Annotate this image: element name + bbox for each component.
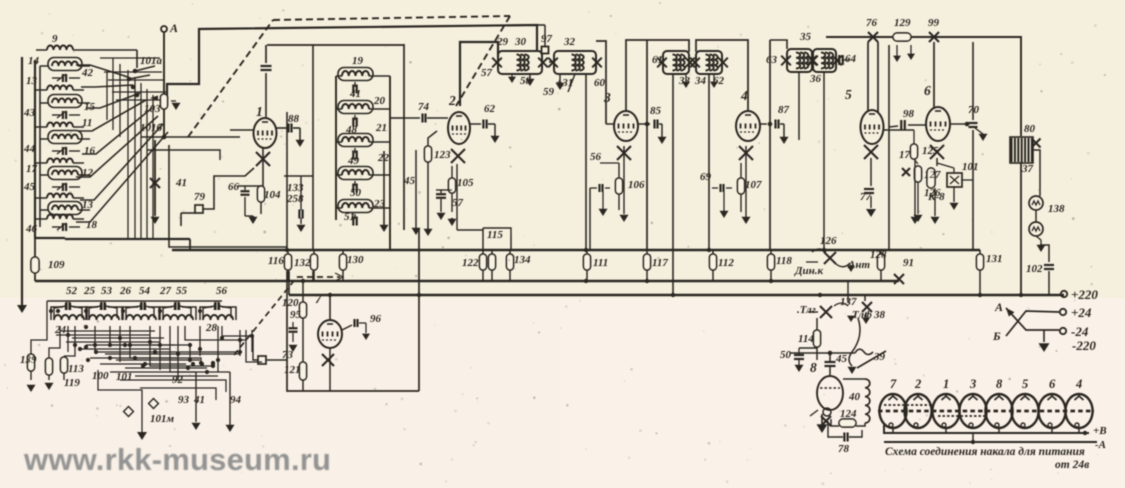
- svg-text:от 24в: от 24в: [1055, 459, 1089, 471]
- svg-text:122: 122: [462, 257, 479, 269]
- svg-text:A: A: [169, 21, 178, 35]
- svg-text:109: 109: [48, 259, 65, 271]
- svg-text:29: 29: [496, 36, 509, 48]
- svg-text:Ант: Ант: [847, 259, 870, 271]
- svg-text:92: 92: [172, 374, 184, 386]
- svg-text:20: 20: [373, 95, 386, 107]
- svg-text:121: 121: [284, 364, 301, 376]
- svg-text:93: 93: [178, 394, 190, 406]
- svg-text:Схема соединения накала для пи: Схема соединения накала для питания: [885, 446, 1085, 458]
- svg-text:-А: -А: [1095, 439, 1106, 451]
- svg-text:128: 128: [870, 249, 887, 261]
- svg-text:63: 63: [766, 54, 778, 66]
- svg-text:51: 51: [344, 211, 355, 223]
- svg-text:117: 117: [652, 257, 668, 269]
- svg-text:64: 64: [845, 53, 857, 65]
- svg-text:104: 104: [264, 189, 281, 201]
- svg-text:5: 5: [1022, 377, 1028, 391]
- svg-text:17: 17: [899, 149, 911, 161]
- svg-text:Дин.к: Дин.к: [794, 265, 823, 277]
- svg-text:9: 9: [52, 33, 58, 45]
- svg-text:12: 12: [82, 167, 94, 179]
- svg-text:57: 57: [481, 67, 493, 79]
- svg-text:87: 87: [778, 104, 790, 116]
- svg-text:28: 28: [205, 322, 218, 334]
- svg-text:85: 85: [650, 105, 662, 117]
- svg-text:100: 100: [92, 370, 109, 382]
- svg-text:60: 60: [594, 77, 606, 89]
- svg-text:106: 106: [628, 179, 645, 191]
- svg-text:+31: +31: [556, 77, 573, 89]
- svg-text:73: 73: [282, 349, 294, 361]
- svg-text:78: 78: [838, 443, 850, 455]
- svg-text:113: 113: [68, 363, 84, 375]
- svg-text:139: 139: [20, 354, 37, 366]
- svg-text:3: 3: [969, 377, 976, 391]
- svg-text:66: 66: [228, 181, 240, 193]
- svg-text:4: 4: [740, 88, 748, 103]
- svg-text:76: 76: [866, 17, 878, 29]
- svg-text:62: 62: [713, 75, 725, 87]
- svg-text:42: 42: [81, 67, 94, 79]
- svg-text:56: 56: [590, 151, 602, 163]
- svg-text:32: 32: [563, 36, 576, 48]
- svg-text:45: 45: [835, 353, 848, 365]
- svg-text:103: 103: [144, 103, 161, 115]
- svg-text:41: 41: [349, 88, 361, 100]
- svg-text:101a: 101a: [140, 55, 163, 67]
- svg-text:21: 21: [375, 122, 387, 134]
- svg-text:13: 13: [82, 199, 94, 211]
- svg-text:8: 8: [996, 377, 1003, 391]
- svg-text:50: 50: [780, 349, 792, 361]
- svg-text:52: 52: [66, 285, 78, 297]
- svg-text:+220: +220: [1071, 287, 1098, 302]
- svg-text:11: 11: [82, 117, 92, 129]
- svg-text:8: 8: [810, 360, 817, 375]
- svg-text:101м: 101м: [150, 413, 175, 425]
- svg-text:258: 258: [286, 193, 304, 205]
- svg-text:-220: -220: [1072, 338, 1096, 353]
- svg-text:Тлф: Тлф: [852, 309, 872, 321]
- svg-text:116: 116: [268, 255, 284, 267]
- svg-text:58: 58: [520, 75, 532, 87]
- svg-text:48: 48: [345, 124, 358, 136]
- svg-text:98: 98: [903, 108, 915, 120]
- svg-text:127: 127: [924, 169, 941, 181]
- svg-text:97: 97: [541, 33, 553, 45]
- svg-text:94: 94: [230, 394, 242, 406]
- svg-text:95: 95: [290, 309, 302, 321]
- svg-text:25: 25: [83, 285, 96, 297]
- svg-text:26: 26: [119, 285, 132, 297]
- svg-text:www.rkk-museum.ru: www.rkk-museum.ru: [23, 442, 331, 477]
- svg-text:14: 14: [28, 55, 40, 67]
- svg-text:74: 74: [418, 101, 430, 113]
- svg-text:7: 7: [890, 377, 897, 391]
- svg-text:80: 80: [1024, 123, 1036, 135]
- svg-text:49: 49: [347, 155, 360, 167]
- svg-text:2: 2: [914, 377, 921, 391]
- svg-text:36: 36: [809, 73, 822, 85]
- svg-text:129: 129: [894, 17, 911, 29]
- svg-text:88: 88: [288, 113, 300, 125]
- svg-text:59: 59: [543, 86, 555, 98]
- svg-text:35: 35: [799, 31, 812, 43]
- svg-text:41: 41: [193, 394, 205, 406]
- svg-text:К-8: К-8: [927, 191, 945, 203]
- svg-text:22: 22: [377, 152, 390, 164]
- svg-text:41: 41: [175, 177, 187, 189]
- svg-text:137: 137: [840, 296, 857, 308]
- svg-text:2: 2: [448, 93, 456, 108]
- svg-text:91: 91: [903, 257, 914, 269]
- svg-text:17: 17: [26, 163, 38, 175]
- svg-text:13: 13: [26, 75, 38, 87]
- svg-text:46: 46: [25, 223, 38, 235]
- svg-text:.Тлг: .Тлг: [797, 304, 816, 316]
- svg-text:61: 61: [652, 54, 663, 66]
- svg-text:111: 111: [593, 257, 608, 269]
- svg-text:45: 45: [23, 181, 36, 193]
- svg-text:96: 96: [370, 313, 382, 325]
- svg-text:16: 16: [84, 145, 96, 157]
- svg-text:55: 55: [176, 285, 188, 297]
- svg-text:5: 5: [845, 87, 852, 102]
- svg-text:79: 79: [194, 191, 206, 203]
- svg-text:124: 124: [840, 408, 857, 420]
- svg-text:101б: 101б: [140, 122, 163, 134]
- svg-text:115: 115: [487, 229, 503, 241]
- svg-text:3: 3: [603, 90, 611, 105]
- svg-text:56: 56: [216, 285, 228, 297]
- svg-text:102: 102: [1026, 263, 1043, 275]
- svg-text:120: 120: [282, 297, 299, 309]
- svg-text:54: 54: [139, 285, 151, 297]
- svg-text:43: 43: [23, 107, 36, 119]
- svg-text:69: 69: [700, 171, 712, 183]
- svg-text:99: 99: [928, 17, 940, 29]
- svg-text:30: 30: [514, 36, 527, 48]
- svg-text:37: 37: [1021, 163, 1034, 175]
- svg-text:125: 125: [922, 145, 939, 157]
- svg-text:33: 33: [678, 75, 691, 87]
- svg-text:119: 119: [64, 377, 80, 389]
- svg-text:134: 134: [514, 254, 531, 266]
- svg-text:126: 126: [820, 235, 837, 247]
- svg-text:105: 105: [457, 177, 474, 189]
- svg-text:6: 6: [1049, 377, 1056, 391]
- svg-text:38: 38: [873, 309, 886, 321]
- svg-text:132: 132: [294, 257, 311, 269]
- svg-text:6: 6: [924, 83, 931, 98]
- svg-text:A: A: [994, 300, 1003, 314]
- svg-text:118: 118: [776, 255, 792, 267]
- svg-text:39: 39: [873, 351, 886, 363]
- svg-text:24: 24: [54, 324, 67, 336]
- svg-text:1: 1: [943, 377, 949, 391]
- svg-text:123: 123: [434, 149, 451, 161]
- svg-text:23: 23: [373, 198, 386, 210]
- svg-text:112: 112: [718, 257, 734, 269]
- svg-text:15: 15: [84, 101, 96, 113]
- svg-text:45: 45: [403, 175, 416, 187]
- svg-text:130: 130: [347, 254, 364, 266]
- svg-text:57: 57: [452, 197, 464, 209]
- svg-text:19: 19: [352, 55, 364, 67]
- svg-text:1: 1: [256, 104, 263, 119]
- svg-text:62: 62: [484, 103, 496, 115]
- svg-text:50: 50: [350, 187, 362, 199]
- svg-text:107: 107: [745, 179, 762, 191]
- svg-text:114: 114: [798, 333, 814, 345]
- svg-text:40: 40: [848, 391, 861, 403]
- svg-text:77: 77: [860, 191, 872, 203]
- svg-text:138: 138: [1048, 203, 1065, 215]
- svg-text:-24: -24: [1071, 324, 1089, 339]
- svg-text:34: 34: [694, 75, 707, 87]
- svg-text:4: 4: [1075, 377, 1082, 391]
- svg-text:+В: +В: [1093, 425, 1107, 437]
- svg-text:70: 70: [968, 104, 980, 116]
- svg-text:131: 131: [986, 253, 1003, 265]
- svg-text:Б: Б: [992, 329, 1001, 343]
- svg-text:+24: +24: [1071, 305, 1092, 320]
- svg-text:53: 53: [101, 285, 113, 297]
- svg-text:101: 101: [962, 161, 979, 173]
- svg-text:27: 27: [159, 285, 172, 297]
- svg-text:18: 18: [86, 219, 98, 231]
- svg-text:44: 44: [23, 143, 36, 155]
- svg-text:101: 101: [116, 371, 133, 383]
